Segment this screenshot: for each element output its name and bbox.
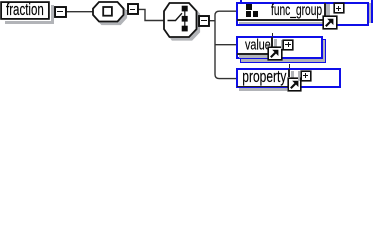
value name panel bottom edge — [237, 53, 268, 55]
property reference arrow box — [288, 78, 302, 92]
wire: fraction expand button to octagon1 — [66, 11, 94, 13]
value back box — [240, 39, 327, 63]
func_group icon (model group: three squares) — [246, 4, 252, 10]
property expand plus button — [301, 71, 312, 82]
value front box — [236, 36, 323, 59]
fraction label — [6, 1, 44, 18]
value panel shadow bottom — [239, 55, 268, 58]
func_group reference arrow box — [323, 16, 337, 30]
choice icon: branch line, diagonal and three squares — [168, 13, 183, 20]
property panel shadow bottom — [239, 88, 288, 91]
wire: minus3 to trunk — [209, 20, 215, 22]
octagon1 (all compositor) with shadow — [90, 0, 130, 27]
value panel corner tick — [272, 33, 273, 36]
property plus gray sliver — [298, 71, 300, 81]
wire: trunk with rounded corners, branch to func_group (top) and property (bottom) — [215, 11, 236, 78]
expand button minus2 — [128, 4, 138, 14]
value name panel right edge — [271, 37, 273, 47]
value stack gray sliver — [241, 40, 325, 62]
expand button minus1 — [55, 7, 66, 18]
func_group stack gray sliver — [369, 3, 371, 23]
func_group front box — [236, 2, 369, 26]
func_group label — [271, 2, 322, 18]
func_group name panel right edge — [324, 3, 326, 16]
element fraction box — [1, 2, 49, 19]
value panel shadow right — [274, 39, 277, 47]
property panel shadow right — [291, 71, 294, 78]
fraction element box shadow — [51, 5, 54, 23]
expand button minus3 — [199, 16, 209, 26]
func_group back box — [240, 0, 373, 23]
property name panel right edge — [288, 69, 290, 78]
func_group name panel bottom edge — [237, 19, 323, 21]
wire: octagon1 right vertex to minus2 — [123, 10, 128, 12]
func_group expand plus button — [334, 3, 344, 13]
property front box — [236, 68, 341, 89]
value reference arrow box — [268, 47, 281, 60]
wire: branch to value — [215, 44, 236, 46]
func_group panel shadow bottom — [239, 22, 323, 25]
value label — [245, 37, 271, 52]
property name panel bottom edge — [237, 86, 287, 88]
wire: octagon2 right vertex to minus3 — [197, 20, 200, 22]
wire layer — [0, 0, 374, 96]
value plus gray sliver — [281, 40, 283, 49]
wire: minus2 stepping down to octagon2 left vertex — [138, 9, 164, 20]
property label — [242, 68, 286, 85]
value expand plus button — [283, 40, 293, 50]
func_group panel shadow right — [326, 4, 329, 15]
octagon2 (choice compositor) with shadow — [160, 0, 203, 44]
property panel corner tick — [289, 64, 290, 67]
